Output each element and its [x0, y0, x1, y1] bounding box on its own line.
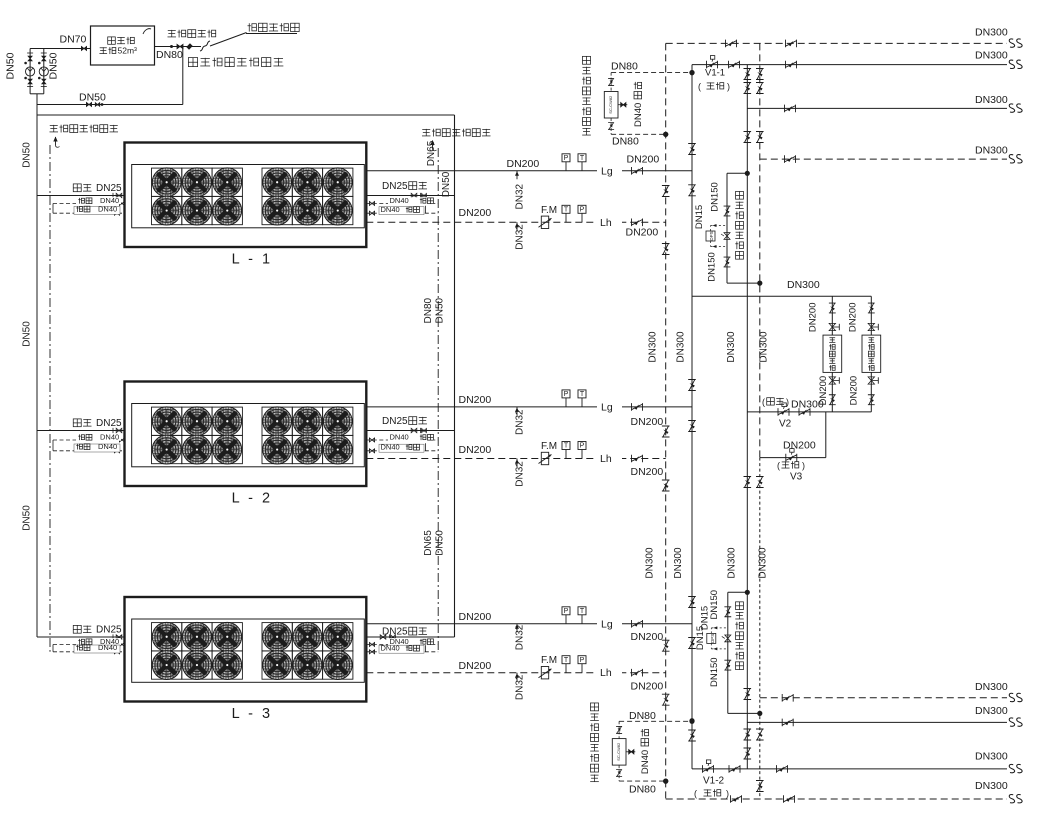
- svg-text:DN50: DN50: [22, 142, 33, 168]
- svg-text:T: T: [580, 608, 585, 615]
- svg-text:F.M: F.M: [541, 205, 557, 216]
- svg-text:DN80: DN80: [612, 136, 639, 148]
- svg-text:DN50: DN50: [22, 505, 33, 531]
- svg-text:52m³: 52m³: [118, 46, 138, 56]
- svg-text:DN25: DN25: [96, 625, 122, 636]
- svg-text:DN300: DN300: [673, 547, 684, 579]
- svg-text:DN32: DN32: [515, 674, 526, 700]
- svg-text:DN300: DN300: [676, 331, 687, 363]
- svg-text:DN300: DN300: [758, 547, 769, 579]
- svg-text:(: (: [777, 461, 780, 471]
- svg-text:): ): [786, 397, 789, 407]
- svg-text:DN300: DN300: [648, 331, 659, 363]
- svg-text:Lh: Lh: [600, 667, 612, 679]
- svg-text:DN200: DN200: [808, 303, 819, 333]
- svg-text:DN80: DN80: [629, 784, 656, 796]
- svg-text:T: T: [580, 391, 585, 398]
- svg-text:DN300: DN300: [726, 331, 737, 363]
- svg-text:DN300: DN300: [759, 331, 770, 363]
- svg-text:P: P: [564, 608, 569, 615]
- svg-text:DN50: DN50: [441, 171, 452, 197]
- svg-text:DN40: DN40: [98, 442, 117, 451]
- svg-text:DN50: DN50: [5, 52, 17, 79]
- svg-text:DN150: DN150: [709, 657, 720, 687]
- svg-text:DN300: DN300: [975, 751, 1008, 763]
- svg-text:DN150: DN150: [710, 182, 721, 212]
- svg-text:DN25: DN25: [96, 183, 122, 194]
- svg-text:(: (: [694, 789, 697, 799]
- svg-text:SC-CW82: SC-CW82: [616, 742, 621, 761]
- svg-text:DN200: DN200: [627, 154, 660, 166]
- svg-text:L - 1: L - 1: [232, 252, 273, 268]
- svg-text:DN40: DN40: [633, 103, 644, 127]
- svg-text:DN300: DN300: [787, 279, 820, 291]
- svg-text:DN15: DN15: [694, 205, 705, 229]
- svg-text:DN200: DN200: [631, 466, 664, 478]
- svg-text:DN300: DN300: [726, 547, 737, 579]
- svg-text:T: T: [564, 207, 569, 214]
- svg-text:V3: V3: [790, 472, 803, 483]
- svg-text:DN200: DN200: [459, 394, 492, 406]
- svg-text:(: (: [698, 82, 701, 92]
- svg-text:P: P: [564, 155, 569, 162]
- svg-text:DN300: DN300: [975, 705, 1008, 717]
- svg-text:P: P: [580, 657, 585, 664]
- svg-text:DN200: DN200: [631, 680, 664, 692]
- svg-text:DN200: DN200: [849, 376, 860, 406]
- svg-text:DN50: DN50: [22, 321, 33, 347]
- svg-text:DN200: DN200: [847, 303, 858, 333]
- svg-text:V1-2: V1-2: [703, 776, 725, 787]
- svg-text:DN300: DN300: [791, 399, 824, 411]
- svg-text:DN40: DN40: [390, 433, 409, 442]
- svg-text:F.M: F.M: [541, 441, 557, 452]
- svg-text:DN300: DN300: [975, 50, 1008, 62]
- svg-text:(: (: [762, 397, 765, 407]
- svg-text:DN300: DN300: [975, 94, 1008, 106]
- svg-text:SC-CW82: SC-CW82: [608, 95, 613, 114]
- svg-text:DN32: DN32: [515, 224, 526, 250]
- svg-text:): ): [727, 82, 730, 92]
- svg-text:): ): [726, 789, 729, 799]
- svg-text:DN200: DN200: [459, 207, 492, 219]
- svg-text:T: T: [564, 657, 569, 664]
- svg-text:DN300: DN300: [645, 547, 656, 579]
- svg-text:P: P: [580, 207, 585, 214]
- svg-text:DN50: DN50: [434, 297, 445, 323]
- svg-text:DN40: DN40: [381, 644, 400, 653]
- svg-text:T: T: [564, 443, 569, 450]
- svg-text:Lg: Lg: [601, 401, 613, 413]
- svg-text:V2: V2: [779, 419, 792, 430]
- svg-text:DN40: DN40: [381, 443, 400, 452]
- svg-text:Lh: Lh: [600, 453, 612, 465]
- svg-text:DN200: DN200: [459, 611, 492, 623]
- svg-text:DN50: DN50: [48, 52, 60, 79]
- svg-text:DN40: DN40: [640, 750, 651, 774]
- svg-text:DN50: DN50: [434, 530, 445, 556]
- svg-text:DN32: DN32: [515, 409, 526, 435]
- svg-text:DN300: DN300: [975, 780, 1008, 792]
- svg-text:DN25: DN25: [382, 416, 408, 427]
- svg-text:V1-1: V1-1: [705, 68, 725, 79]
- svg-text:P: P: [564, 391, 569, 398]
- svg-text:DN65: DN65: [423, 530, 434, 556]
- svg-text:DN200: DN200: [631, 631, 664, 643]
- svg-text:DN150: DN150: [706, 252, 717, 282]
- svg-text:DN80: DN80: [156, 49, 183, 61]
- svg-text:DN50: DN50: [79, 92, 106, 104]
- svg-text:DN25: DN25: [382, 181, 408, 192]
- svg-text:Lg: Lg: [601, 165, 613, 177]
- svg-text:L - 2: L - 2: [232, 491, 273, 507]
- svg-text:DN200: DN200: [631, 416, 664, 428]
- svg-text:DN200: DN200: [459, 660, 492, 672]
- svg-text:DN200: DN200: [459, 444, 492, 456]
- svg-text:DN40: DN40: [98, 205, 117, 214]
- svg-text:DN300: DN300: [975, 681, 1008, 693]
- svg-text:DN300: DN300: [975, 27, 1008, 39]
- svg-text:DN40: DN40: [381, 205, 400, 214]
- svg-text:DN40: DN40: [98, 643, 117, 652]
- svg-text:T: T: [580, 155, 585, 162]
- svg-text:DN200: DN200: [626, 226, 659, 238]
- svg-text:): ): [802, 461, 805, 471]
- svg-text:P: P: [580, 443, 585, 450]
- svg-text:DN80: DN80: [423, 297, 434, 323]
- svg-text:DPS: DPS: [710, 634, 715, 643]
- svg-text:DN300: DN300: [975, 145, 1008, 157]
- svg-text:DN80: DN80: [629, 710, 656, 722]
- svg-text:DN40: DN40: [100, 433, 119, 442]
- svg-text:DPS: DPS: [709, 231, 714, 240]
- svg-text:DN150: DN150: [709, 590, 720, 620]
- svg-text:L - 3: L - 3: [232, 706, 273, 722]
- svg-text:DN80: DN80: [611, 61, 638, 73]
- svg-text:DN15: DN15: [695, 626, 706, 650]
- svg-text:DN200: DN200: [507, 158, 540, 170]
- svg-text:DN25: DN25: [382, 627, 408, 638]
- svg-text:DN200: DN200: [783, 439, 816, 451]
- svg-text:DN70: DN70: [60, 34, 87, 46]
- svg-text:DN65: DN65: [426, 140, 437, 166]
- svg-text:DN32: DN32: [515, 183, 526, 209]
- svg-text:Lg: Lg: [601, 618, 613, 630]
- svg-text:DN32: DN32: [515, 624, 526, 650]
- svg-text:Lh: Lh: [600, 217, 612, 229]
- svg-text:DN25: DN25: [96, 418, 122, 429]
- svg-text:DN32: DN32: [515, 461, 526, 487]
- svg-text:F.M: F.M: [541, 655, 557, 666]
- svg-text:DN40: DN40: [390, 196, 409, 205]
